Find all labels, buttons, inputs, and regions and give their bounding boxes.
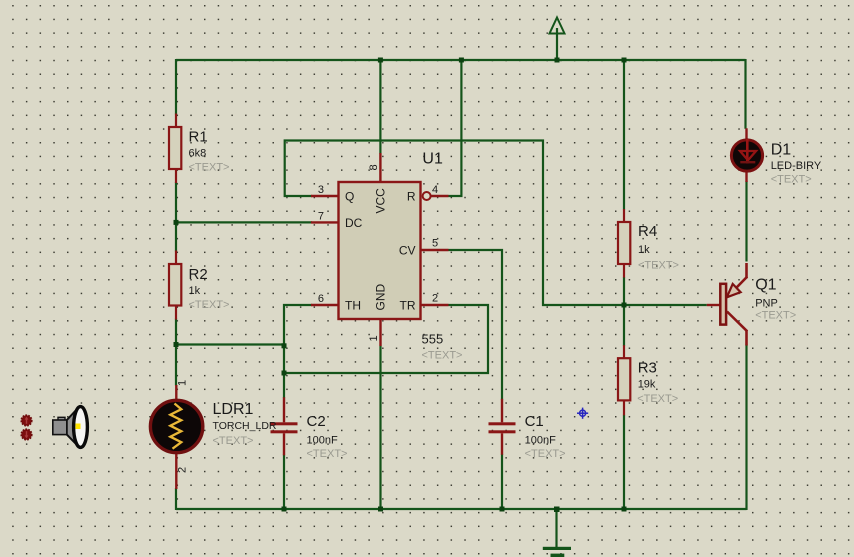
- svg-text:TORCH_LDR: TORCH_LDR: [213, 420, 277, 432]
- resistor R2: [169, 251, 229, 320]
- junction bottom rail R3: [622, 507, 627, 512]
- svg-text:<TEXT>: <TEXT>: [213, 435, 254, 447]
- svg-text:<TEXT>: <TEXT>: [189, 299, 230, 311]
- LDR1 TORCH_LDR: [150, 380, 277, 489]
- svg-text:1k: 1k: [638, 244, 650, 256]
- marker red dot lower: [21, 429, 31, 439]
- junction top rail power x557: [555, 58, 560, 63]
- marker blue crosshair: [577, 408, 588, 419]
- svg-text:<TEXT>: <TEXT>: [638, 260, 679, 272]
- wire LDR bottom to ground rail: [175, 488, 177, 510]
- wire top rail to D1 anode: [744, 59, 746, 129]
- svg-text:3: 3: [318, 184, 324, 196]
- svg-text:4: 4: [432, 184, 438, 196]
- svg-text:TR: TR: [400, 299, 416, 313]
- junction node base x624 y305: [622, 303, 627, 308]
- ground symbol: [543, 509, 571, 557]
- svg-text:1: 1: [177, 380, 189, 386]
- wire top power rail: [176, 59, 746, 61]
- svg-text:<TEXT>: <TEXT>: [525, 448, 566, 460]
- svg-text:LED-BIRY: LED-BIRY: [771, 160, 822, 172]
- svg-text:<TEXT>: <TEXT>: [771, 174, 812, 186]
- junction bottom rail C1: [500, 507, 505, 512]
- svg-text:C1: C1: [525, 413, 544, 430]
- junction node DC x176: [174, 220, 179, 225]
- svg-text:CV: CV: [399, 244, 416, 258]
- junction node TH-TR x284 y373: [282, 371, 287, 376]
- svg-text:DC: DC: [345, 216, 363, 230]
- svg-text:R4: R4: [638, 223, 657, 240]
- svg-text:VCC: VCC: [374, 188, 388, 214]
- svg-text:6: 6: [318, 293, 324, 305]
- svg-text:7: 7: [318, 211, 324, 223]
- svg-text:LDR1: LDR1: [213, 401, 254, 418]
- svg-text:TH: TH: [345, 299, 361, 313]
- svg-text:2: 2: [432, 293, 438, 305]
- svg-text:<TEXT>: <TEXT>: [422, 350, 463, 362]
- svg-text:U1: U1: [422, 151, 443, 168]
- wire R reset pin4 loop: [449, 59, 462, 196]
- junction bottom rail pin1: [378, 507, 383, 512]
- svg-text:<TEXT>: <TEXT>: [637, 393, 678, 405]
- svg-text:GND: GND: [374, 284, 388, 311]
- wire R4 column top: [623, 59, 625, 210]
- svg-text:2: 2: [177, 467, 189, 473]
- svg-text:100nF: 100nF: [525, 435, 556, 447]
- svg-text:1: 1: [368, 335, 380, 341]
- capacitor C1: [489, 399, 566, 460]
- junction node TH x284 y346: [282, 343, 287, 348]
- wire R2 junction to TH column: [176, 343, 284, 345]
- wire TH pin6 to C2 column: [284, 305, 312, 398]
- op-amp U1 555 timer body: [311, 151, 462, 362]
- svg-text:R2: R2: [189, 266, 208, 283]
- svg-text:100nF: 100nF: [307, 435, 338, 447]
- junction bottom rail C2: [282, 507, 287, 512]
- resistor R3: [618, 345, 678, 415]
- wire left column top (rail to R1): [175, 59, 177, 115]
- junction node R2-LDR x176: [174, 342, 179, 347]
- wire CV pin5 to C1: [449, 250, 503, 400]
- wire GND pin1 to ground rail: [379, 346, 381, 509]
- speaker icon: [53, 407, 88, 448]
- svg-text:6k8: 6k8: [189, 148, 207, 160]
- wire R3 bottom to ground rail: [623, 415, 625, 509]
- svg-text:555: 555: [422, 332, 444, 347]
- LED D1: [731, 128, 821, 185]
- svg-text:<TEXT>: <TEXT>: [189, 162, 230, 174]
- svg-text:R3: R3: [638, 360, 657, 377]
- svg-text:PNP: PNP: [755, 298, 778, 310]
- svg-text:<TEXT>: <TEXT>: [307, 448, 348, 460]
- marker red dot upper: [21, 415, 31, 425]
- svg-text:<TEXT>: <TEXT>: [755, 310, 796, 322]
- wire C2 bottom to ground rail: [283, 455, 285, 510]
- junction top rail x380: [378, 58, 383, 63]
- svg-text:19k: 19k: [638, 379, 656, 391]
- svg-text:Q: Q: [345, 190, 354, 204]
- svg-text:D1: D1: [771, 142, 792, 159]
- junction top rail x624: [622, 58, 627, 63]
- wire C1 bottom to ground rail: [501, 454, 503, 509]
- svg-text:8: 8: [368, 164, 380, 170]
- svg-text:R: R: [407, 190, 416, 204]
- transistor Q1 PNP: [707, 263, 796, 346]
- capacitor C2: [271, 397, 348, 460]
- wire TR pin2 return loop: [284, 305, 488, 373]
- svg-text:C2: C2: [307, 413, 326, 430]
- wire R2 bottom to LDR top: [175, 319, 177, 386]
- svg-text:5: 5: [432, 238, 438, 250]
- wire DC pin7 horizontal: [176, 221, 312, 223]
- wire R1 bottom to R2 top: [175, 182, 177, 252]
- wire bottom ground rail: [176, 508, 747, 510]
- wire Q output loop pin3 to transistor base: [285, 141, 707, 306]
- resistor R4: [618, 209, 679, 278]
- resistor R1: [169, 114, 229, 184]
- wire R4 bottom to base junction: [623, 277, 625, 346]
- svg-text:Q1: Q1: [755, 277, 776, 294]
- svg-text:1k: 1k: [189, 285, 201, 297]
- power symbol arrow: [550, 18, 565, 61]
- wire D1 cathode to Q1 emitter: [745, 181, 747, 262]
- svg-text:R1: R1: [189, 129, 208, 146]
- junction top rail x461: [459, 58, 464, 63]
- wire Q1 collector to ground rail corner: [745, 345, 747, 511]
- junction bottom rail ground: [554, 507, 560, 513]
- wire VCC pin8 drop: [379, 59, 381, 154]
